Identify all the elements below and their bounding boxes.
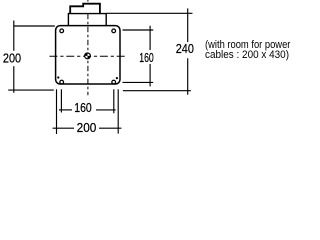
dim 240 right: dimension line bbox=[187, 8, 189, 42]
mounting hole top-right bbox=[112, 29, 116, 33]
dim 200 bottom: dimension line bbox=[53, 127, 74, 129]
svg-text:200: 200 bbox=[77, 120, 97, 135]
dim 240 right: top extension bbox=[107, 12, 193, 14]
vertical centerline bbox=[87, 0, 89, 2]
unit body outline bbox=[56, 26, 120, 84]
mounting hole top-left bbox=[60, 29, 64, 33]
connector plug (stepped latch profile) bbox=[70, 4, 100, 14]
mounting hole bottom-left bbox=[60, 80, 64, 84]
dim 160 right: bottom extension bbox=[123, 81, 154, 83]
dim 200 left: dimension line bbox=[13, 21, 15, 51]
connector base block bbox=[68, 14, 106, 26]
note text line 2 bbox=[205, 50, 289, 61]
svg-text:240: 240 bbox=[176, 41, 194, 56]
dim 200 left: top extension bbox=[14, 25, 55, 27]
dim 200 bottom: extension lines bbox=[56, 89, 58, 134]
dim 160 bottom: dimension line bbox=[59, 109, 72, 111]
mounting hole bottom-right bbox=[112, 80, 116, 84]
svg-text:200: 200 bbox=[3, 50, 21, 65]
svg-text:160: 160 bbox=[74, 100, 92, 115]
dim 160 right: dimension line bbox=[149, 26, 151, 50]
small dot bottom-right corner bbox=[116, 77, 118, 79]
small dot bottom-left corner bbox=[57, 76, 59, 78]
horizontal centerline bbox=[50, 55, 127, 57]
dim 200 left: bottom extension bbox=[8, 89, 54, 91]
dim 160 bottom: extension lines bbox=[60, 89, 62, 112]
svg-text:160: 160 bbox=[139, 50, 154, 65]
dim 160 right: top extension bbox=[123, 29, 154, 31]
dim 240 right: bottom extension bbox=[123, 90, 191, 92]
center mark bbox=[85, 53, 91, 59]
note text line 1 bbox=[205, 40, 290, 51]
